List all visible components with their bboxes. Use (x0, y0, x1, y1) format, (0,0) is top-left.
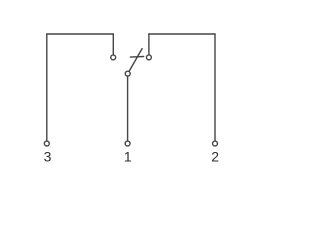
wire: top-left horizontal rail (47, 33, 114, 35)
svg-text:3: 3 (44, 148, 52, 164)
switch lever (pole to right throw) (129, 49, 142, 72)
wire: top-right horizontal rail (149, 33, 215, 35)
terminal 2 pin circle (213, 141, 218, 146)
wire: pin 3 riser (46, 34, 48, 141)
terminal 1 pin circle (125, 141, 130, 146)
svg-text:2: 2 (211, 148, 219, 164)
contact: common pole (pin 1) open circle (125, 71, 130, 76)
terminal 3 pin circle (44, 141, 49, 146)
contact: right throw (pin 2) open circle (146, 55, 151, 60)
svg-text:1: 1 (124, 148, 132, 164)
wire: drop to right throw contact (148, 34, 150, 55)
wire: pin 1 riser to common pole (127, 76, 129, 140)
wire: drop to left throw contact (112, 34, 114, 55)
switch actuator bar (130, 56, 143, 59)
contact: left throw (pin 3) open circle (111, 55, 116, 60)
wire: pin 2 riser (214, 34, 216, 141)
